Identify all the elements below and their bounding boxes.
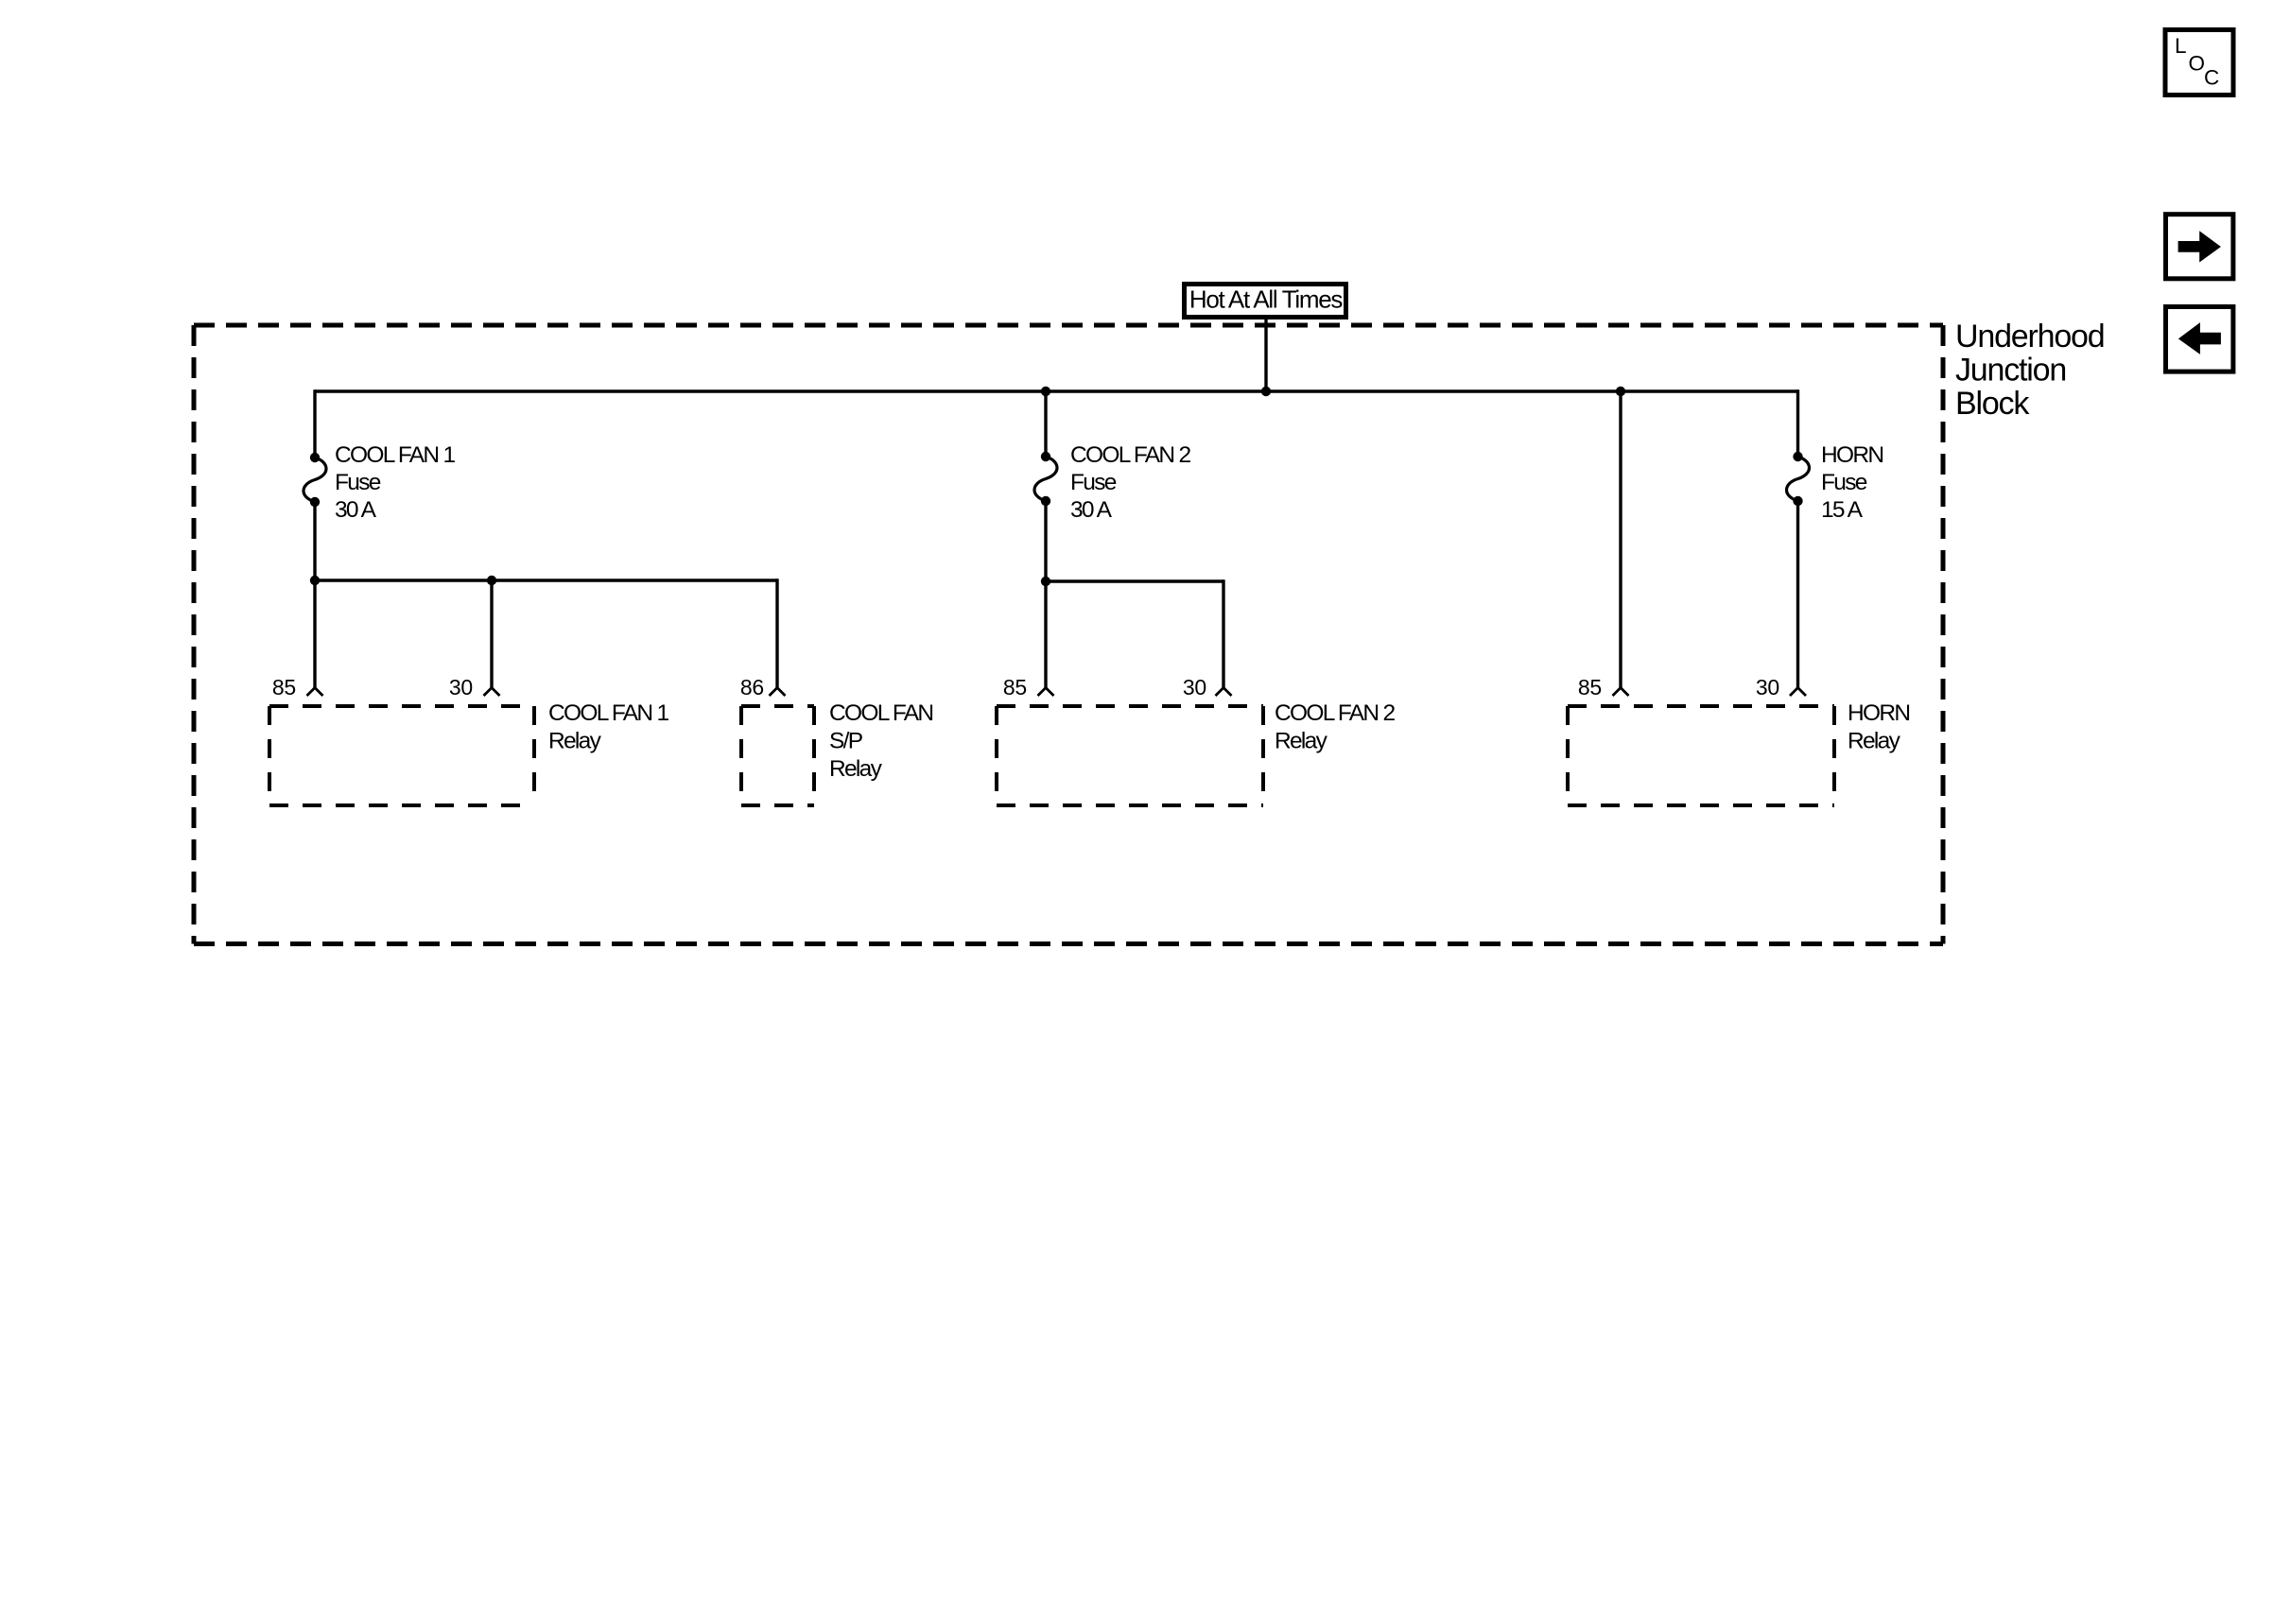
relay box: COOL FAN S/P Relay <box>741 706 814 805</box>
relay box: COOL FAN 1 Relay <box>269 706 534 805</box>
svg-text:Underhood: Underhood <box>1955 319 2104 354</box>
pin 30 terminal of horn relay <box>1790 688 1806 697</box>
wire: bus end down to horn fuse <box>1796 391 1798 457</box>
label: HORN Fuse 15 A <box>1821 442 1883 523</box>
label: COOL FAN S/P Relay <box>829 700 932 782</box>
svg-text:30 A: 30 A <box>1070 497 1113 523</box>
svg-text:15 A: 15 A <box>1821 497 1864 523</box>
fuse COOL FAN 1 (30 A) <box>304 458 326 502</box>
svg-text:HORN: HORN <box>1821 442 1883 468</box>
svg-text:COOL FAN 2: COOL FAN 2 <box>1275 700 1395 726</box>
svg-text:Relay: Relay <box>548 729 602 754</box>
junction dot: fan2 branch <box>1041 577 1050 586</box>
fuse2 terminal dot bottom <box>1041 496 1050 506</box>
svg-text:COOL FAN: COOL FAN <box>829 700 932 726</box>
svg-text:30: 30 <box>449 675 473 700</box>
wire: fan2 branch horizontal <box>1046 579 1223 582</box>
svg-text:Fuse: Fuse <box>335 470 381 495</box>
label: COOL FAN 2 Relay <box>1275 700 1395 754</box>
svg-text:85: 85 <box>1578 675 1602 700</box>
svg-text:30 A: 30 A <box>335 497 377 523</box>
svg-text:O: O <box>2189 52 2206 76</box>
label: Underhood Junction Block <box>1955 319 2104 422</box>
svg-text:85: 85 <box>1003 675 1027 700</box>
svg-text:S/P: S/P <box>829 729 863 754</box>
label: COOL FAN 1 Relay <box>548 700 668 754</box>
relay box: COOL FAN 2 Relay <box>997 706 1263 805</box>
junction dot: bus / horn relay tap <box>1616 387 1625 396</box>
svg-text:Junction: Junction <box>1955 353 2066 389</box>
svg-text:Fuse: Fuse <box>1821 470 1867 495</box>
wire: bus tap down to fuse2 <box>1044 391 1047 457</box>
svg-text:HORN: HORN <box>1848 700 1909 726</box>
LOC letters <box>2175 34 2219 90</box>
svg-text:COOL FAN 1: COOL FAN 1 <box>335 442 455 468</box>
wire: horn fuse down to relay pin 30 <box>1796 501 1799 688</box>
wire: fuse1 to branch junction <box>313 502 316 580</box>
svg-text:Block: Block <box>1955 386 2030 422</box>
wire: hot feed drop <box>1264 320 1267 391</box>
fuse1 terminal dot top <box>310 453 320 462</box>
svg-text:30: 30 <box>1756 675 1779 700</box>
fuse2 terminal dot top <box>1041 452 1050 461</box>
node: Hot At All Times box <box>1185 285 1346 318</box>
wire: bus down to fuse1 <box>313 389 316 458</box>
fuse COOL FAN 2 (30 A) <box>1034 457 1057 501</box>
svg-text:COOL FAN 1: COOL FAN 1 <box>548 700 668 726</box>
svg-text:86: 86 <box>740 675 764 700</box>
arrow-right reference box <box>2166 215 2233 279</box>
relay box: HORN Relay <box>1568 706 1834 805</box>
wire: drop to S/P relay pin 86 <box>775 579 778 687</box>
wire: drop to relay2 pin 30 <box>1222 579 1224 687</box>
svg-text:L: L <box>2175 34 2187 58</box>
junction dot: hot feed / bus <box>1261 387 1271 396</box>
pin 85 terminal of horn relay <box>1613 688 1629 697</box>
wire: fuse2 to branch junction <box>1044 501 1047 581</box>
pin 30 terminal of relay2 <box>1216 688 1232 697</box>
svg-text:Fuse: Fuse <box>1070 470 1117 495</box>
junction dot: fan1 branch left <box>310 576 320 585</box>
wire: main bus <box>315 389 1798 392</box>
horn fuse terminal dot bottom <box>1793 496 1802 506</box>
arrow-left reference box <box>2166 307 2233 372</box>
wire: drop to relay1 pin 85 <box>313 580 316 688</box>
arrow-left glyph <box>2178 322 2221 354</box>
pin 86 terminal of S/P relay <box>770 688 786 697</box>
svg-text:85: 85 <box>272 675 296 700</box>
fuse1 terminal dot bottom <box>310 497 320 507</box>
svg-text:COOL FAN 2: COOL FAN 2 <box>1070 442 1190 468</box>
Underhood Junction Block dashed border <box>194 325 1943 944</box>
junction dot: fan1 branch / pin30 drop <box>487 576 496 585</box>
label: COOL FAN 2 Fuse 30 A <box>1070 442 1190 523</box>
pin 85 terminal of relay1 <box>307 688 323 697</box>
svg-text:Hot At All Times: Hot At All Times <box>1189 285 1344 314</box>
svg-text:C: C <box>2204 66 2219 90</box>
svg-text:30: 30 <box>1183 675 1206 700</box>
svg-text:Relay: Relay <box>829 756 883 782</box>
fuse HORN (15 A) <box>1787 457 1810 501</box>
svg-text:Relay: Relay <box>1275 729 1328 754</box>
pin 30 terminal of relay1 <box>484 688 500 697</box>
wire: drop to relay1 pin 30 <box>490 580 493 688</box>
junction dot: bus / fuse2 tap <box>1041 387 1050 396</box>
arrow-right glyph <box>2178 231 2221 262</box>
LOC reference box <box>2165 30 2233 95</box>
label: COOL FAN 1 Fuse 30 A <box>335 442 455 523</box>
wire: drop to relay2 pin 85 <box>1044 581 1047 688</box>
wire: fan1 branch horizontal <box>315 579 777 581</box>
horn fuse terminal dot top <box>1793 452 1802 461</box>
svg-text:Relay: Relay <box>1848 729 1901 754</box>
pin 85 terminal of relay2 <box>1038 688 1054 697</box>
label: HORN Relay <box>1848 700 1909 754</box>
wire: bus tap down to horn relay pin 85 <box>1619 391 1622 688</box>
